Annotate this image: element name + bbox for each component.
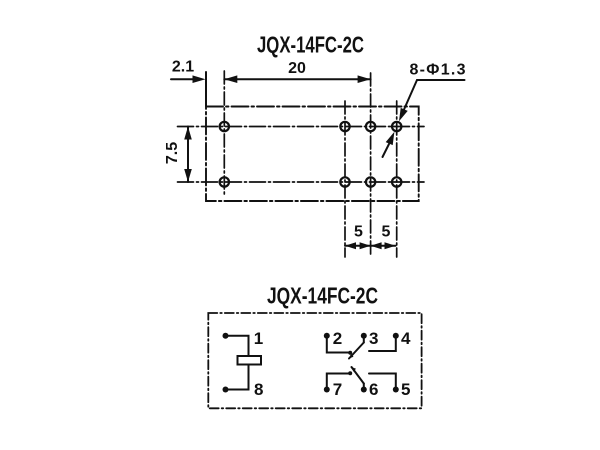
centerline bottom hole row	[178, 181, 425, 183]
pin 5 dot	[393, 387, 399, 393]
wire pin5 to contact	[369, 374, 396, 390]
svg-text:8: 8	[254, 380, 263, 399]
pin 2 dot	[324, 333, 330, 339]
dimension 7.5 up arrow	[184, 127, 192, 140]
wire pin4 to contact	[369, 336, 396, 351]
svg-text:JQX-14FC-2C: JQX-14FC-2C	[257, 32, 364, 58]
relay outline rectangle (top view)	[206, 107, 419, 202]
wire pin3 stub	[363, 336, 365, 343]
switch arm bottom	[352, 367, 364, 384]
svg-text:7.5: 7.5	[164, 142, 181, 164]
svg-text:2: 2	[333, 329, 342, 348]
dimension 7.5 down arrow	[184, 169, 192, 182]
extension line left edge	[205, 72, 207, 106]
hole bottom B	[366, 177, 375, 186]
hole bottom C	[392, 177, 401, 186]
coil rectangle	[238, 356, 262, 365]
wire pin2 to contact	[327, 336, 350, 353]
hole bottom A	[340, 177, 349, 186]
hole bottom-left	[220, 177, 229, 186]
switch arm top	[349, 343, 364, 359]
coil wire bottom	[226, 365, 249, 390]
dimension 7.5 line	[187, 127, 189, 183]
centerline column B	[370, 73, 372, 257]
centerline top hole row	[178, 126, 425, 128]
centerline column C	[396, 101, 398, 257]
dim 5 left-right arrow	[360, 242, 371, 249]
contact blob bottom	[348, 371, 352, 375]
svg-text:6: 6	[369, 380, 378, 399]
pin 6 dot	[361, 387, 367, 393]
svg-text:3: 3	[369, 329, 378, 348]
switch arm bottom barb	[352, 367, 357, 372]
dim 5 left-left arrow	[345, 242, 356, 249]
dimension 2.1 arrow	[193, 75, 206, 83]
dimension 20 line	[224, 78, 370, 80]
svg-text:2.1: 2.1	[172, 59, 194, 76]
pin 8 dot	[223, 387, 229, 393]
leader upper arrow	[399, 108, 408, 121]
leader lower arrow	[386, 132, 395, 145]
svg-text:1: 1	[254, 329, 263, 348]
svg-text:5: 5	[382, 224, 391, 241]
dim 5 right-right arrow	[385, 242, 396, 249]
hole top B	[366, 122, 375, 131]
switch arm top barb	[349, 354, 354, 359]
leader diagonal upper segment	[404, 80, 417, 110]
pin 7 dot	[324, 387, 330, 393]
leader diagonal lower tail	[383, 144, 390, 157]
svg-text:20: 20	[288, 60, 306, 77]
centerline column A	[344, 101, 346, 257]
wire pin7 to contact	[327, 374, 350, 390]
hole top-left	[220, 122, 229, 131]
svg-text:4: 4	[401, 329, 411, 348]
svg-text:8-Φ1.3: 8-Φ1.3	[410, 62, 466, 79]
dimension 2.1 tail line	[171, 78, 196, 80]
svg-text:JQX-14FC-2C: JQX-14FC-2C	[267, 283, 378, 309]
pin 4 dot	[393, 333, 399, 339]
schematic boundary rectangle	[208, 313, 421, 408]
hole top A	[340, 122, 349, 131]
dimension 20 left arrow	[224, 75, 237, 83]
pin 3 dot	[361, 333, 367, 339]
coil wire top	[226, 336, 249, 356]
wire pin6 stub	[363, 384, 365, 390]
leader underline	[417, 79, 465, 81]
contact blob top	[348, 351, 352, 355]
dim 5 right-left arrow	[371, 242, 382, 249]
pin 1 dot	[223, 333, 229, 339]
svg-text:5: 5	[354, 224, 363, 241]
dimension 20 right arrow	[358, 75, 371, 83]
centerline column pin1	[223, 71, 225, 196]
hole top C	[392, 122, 401, 131]
svg-text:5: 5	[401, 380, 410, 399]
svg-text:7: 7	[333, 380, 342, 399]
dimension 5-5 line	[345, 245, 396, 247]
